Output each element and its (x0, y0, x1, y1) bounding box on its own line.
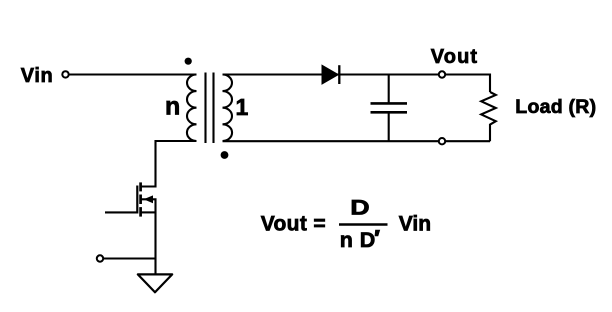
formula prime mark on D (375, 230, 381, 237)
transformer core (two bars) (204, 73, 206, 144)
wire: secondary top rail to output corner (223, 75, 491, 93)
ground symbol (138, 274, 172, 292)
transistor Q1 gate lead (105, 211, 137, 213)
formula numerator D (350, 196, 369, 220)
svg-text:n D: n D (340, 228, 376, 252)
svg-text:Vout: Vout (431, 46, 478, 68)
wire: Vin terminal to transformer primary top (66, 73, 197, 75)
formula fraction bar (339, 223, 388, 226)
svg-text:D: D (350, 196, 369, 220)
transistor Q1 channel dash (drain) (139, 182, 142, 191)
capacitor C1 top lead (388, 75, 390, 104)
svg-text:Vin: Vin (399, 213, 431, 236)
wire: secondary bottom rail (223, 140, 491, 142)
polarity dot (secondary, bottom) (221, 151, 229, 159)
svg-text:Load (R): Load (R) (515, 96, 596, 118)
transistor Q1 channel dash (source) (139, 207, 142, 217)
terminal Vin (open circle) (62, 71, 68, 77)
capacitor C1 bottom lead (388, 112, 390, 141)
svg-text:Vin: Vin (21, 65, 54, 87)
transistor Q1 body arrow (142, 198, 155, 200)
wire: primary bottom lead to MOSFET drain (141, 141, 197, 187)
transformer T1 primary winding (n turns) (187, 75, 197, 142)
wire: MOSFET source down to ground (154, 198, 156, 274)
terminal gate drive (open circle) (97, 255, 103, 261)
svg-text:Vout =: Vout = (261, 213, 326, 236)
polarity dot (primary, top) (185, 58, 192, 65)
diode D1 (anode left, cathode right) (322, 65, 338, 84)
capacitor C1 plates (371, 102, 408, 105)
transformer T1 secondary winding (1 turn) (223, 75, 233, 142)
transistor Q1 source stub (141, 211, 157, 213)
resistor Load (zigzag) with leads (481, 92, 496, 141)
terminal Vout+ (open circle) (439, 71, 445, 77)
svg-text:n: n (165, 92, 180, 120)
wire: gate-drive terminal to source node (100, 257, 156, 259)
transistor Q1 channel dash (body) (139, 195, 142, 205)
terminal Vout- (open circle) (439, 138, 445, 144)
svg-text:1: 1 (236, 94, 249, 120)
transistor Q1 gate plate (136, 186, 138, 214)
